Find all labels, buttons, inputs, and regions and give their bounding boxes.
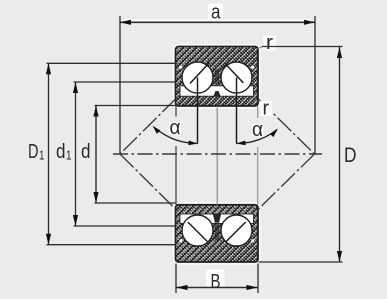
cage pinch top: [215, 69, 220, 84]
svg-text:a: a: [211, 2, 221, 24]
cage pinch bottom: [215, 222, 220, 241]
ball bottom-left: [182, 215, 213, 246]
dimension a: [120, 2, 315, 155]
svg-text:D: D: [28, 141, 39, 163]
bottom shoulder relief right: [251, 239, 254, 242]
dimension d1: [56, 82, 177, 226]
label alpha right: [251, 119, 265, 141]
right side-face line upper stub: [257, 106, 259, 118]
top inner-ring center rib: [213, 91, 220, 96]
top-right ball center vertical: [236, 78, 238, 144]
contact line extension upper-left: [120, 99, 176, 155]
dimension D1: [28, 63, 177, 244]
svg-text:d: d: [81, 141, 91, 163]
label alpha left: [169, 117, 183, 139]
bottom-right contact diagonal: [226, 222, 246, 242]
label r top: [258, 32, 277, 54]
dimension D: [259, 47, 357, 263]
bottom inner-ring center rib: [213, 214, 221, 222]
top-left ball center vertical: [197, 78, 199, 144]
svg-text:d: d: [56, 141, 66, 163]
svg-text:B: B: [211, 270, 221, 293]
left side-face line upper stub: [175, 106, 177, 117]
outer ring top halo: [176, 47, 259, 107]
alpha arc left: [151, 124, 198, 146]
bearing bottom halo: [176, 205, 259, 262]
top shoulder relief right: [251, 66, 254, 69]
top shoulder relief left: [179, 66, 182, 69]
dimension B: [176, 264, 258, 294]
top-right contact diagonal: [225, 63, 244, 83]
ball top-right: [221, 62, 252, 93]
ball bottom-right: [221, 215, 252, 246]
bearing top cross-section body: [176, 47, 259, 107]
contact line extension lower-right: [258, 154, 315, 210]
svg-text:r: r: [266, 32, 273, 54]
left side-face line lower part: [175, 146, 177, 205]
top raceway groove strip: [180, 86, 254, 96]
dimension d: [81, 106, 177, 204]
svg-text:α: α: [252, 119, 263, 141]
axis center line: [113, 153, 322, 155]
center joint line: [216, 106, 218, 205]
top-left contact diagonal: [190, 63, 210, 84]
svg-text:D: D: [344, 143, 357, 167]
bottom raceway groove strip: [180, 214, 254, 223]
svg-text:α: α: [170, 117, 181, 139]
label r bottom: [261, 98, 273, 120]
contact line extension upper-right: [258, 99, 315, 155]
svg-text:1: 1: [39, 149, 45, 163]
right side-face line lower part: [257, 147, 259, 205]
bearing bottom cross-section body: [176, 205, 259, 262]
contact line extension lower-left: [120, 154, 176, 210]
svg-text:r: r: [263, 98, 270, 120]
alpha arc right: [236, 127, 279, 146]
ball top-left: [182, 62, 213, 93]
svg-text:1: 1: [66, 149, 72, 163]
bottom shoulder relief left: [179, 239, 182, 242]
bottom-left contact diagonal: [188, 222, 208, 242]
